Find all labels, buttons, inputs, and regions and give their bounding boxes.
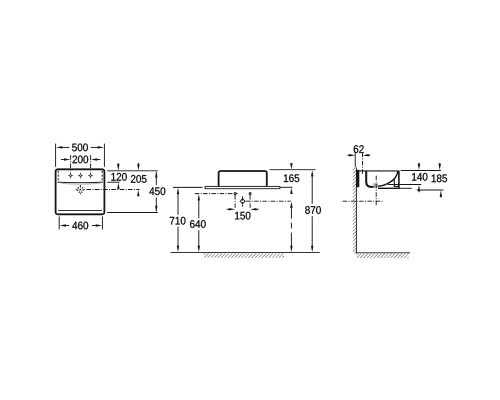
- dim 150: [227, 208, 259, 211]
- fixing holes centerline: [195, 193, 238, 195]
- basin inner bowl U: [366, 171, 375, 187]
- top ext line (right of plan): [107, 170, 158, 172]
- outlet diamond: [240, 199, 245, 204]
- basin front rect: [219, 171, 267, 187]
- label 185: [432, 174, 447, 182]
- basin outer rect (plan): [56, 169, 105, 214]
- dim 140: [388, 163, 421, 193]
- inner bottom edge: [58, 209, 102, 211]
- dim 450: [107, 171, 158, 212]
- broken dim line (drain height): [290, 202, 293, 253]
- dim 205: [87, 163, 140, 196]
- basin back wall (solid): [357, 170, 360, 187]
- dim 200: [61, 155, 100, 172]
- drain centerline: [375, 176, 377, 206]
- label 140: [412, 173, 427, 181]
- label 150: [235, 212, 250, 220]
- front wall outer: [398, 171, 400, 189]
- wall face: [355, 167, 357, 253]
- floor line (right): [356, 252, 410, 254]
- inner edge shading: [61, 183, 100, 184]
- outlet centerline (side): [343, 200, 383, 202]
- floor hatch (middle): [204, 253, 285, 257]
- dim 500: [56, 144, 105, 167]
- dim 640: [198, 194, 201, 252]
- label 710: [170, 217, 186, 225]
- dim 870: [311, 170, 314, 252]
- top ext line 165/870: [270, 169, 316, 171]
- label 120: [111, 173, 126, 181]
- drain block: [373, 183, 378, 187]
- countertop slab: [205, 186, 280, 188]
- tap hole R: [88, 173, 93, 179]
- dim 165: [280, 163, 292, 194]
- hidden edge dashed left: [57, 171, 59, 182]
- bottom ext thin: [400, 187, 412, 189]
- label 62: [354, 145, 364, 153]
- floor hatch (right): [356, 254, 408, 258]
- label 500: [72, 144, 88, 152]
- label 450: [149, 187, 165, 195]
- front wall inner edge: [394, 179, 399, 187]
- label 460: [72, 222, 88, 230]
- basin section: rim top line: [357, 170, 399, 172]
- label 165: [284, 174, 299, 182]
- top ext line 140/185: [401, 170, 441, 172]
- fixing hole drop lines: [234, 195, 236, 209]
- drain (plan): [76, 185, 85, 194]
- outlet centerline horizontal: [246, 200, 291, 202]
- label 205: [131, 175, 147, 183]
- hidden edge dashed right: [101, 171, 103, 182]
- dim 120: [107, 163, 119, 189]
- fixing hole R: [249, 193, 251, 195]
- tap hole L: [68, 173, 73, 179]
- label 200: [73, 156, 89, 164]
- label 870: [305, 206, 321, 214]
- dim 710: [173, 187, 203, 252]
- basin outer bottom: [378, 187, 400, 189]
- wall hatch: [353, 167, 357, 253]
- dim 185: [417, 163, 444, 198]
- dim 460: [59, 216, 102, 229]
- tap hole C: [78, 173, 83, 179]
- fixing hole L: [234, 193, 236, 195]
- outlet centerline vertical: [242, 196, 244, 206]
- floor line (middle): [171, 251, 320, 253]
- label 640: [190, 220, 206, 228]
- dim 62: [347, 151, 370, 174]
- inner basin back edge: [58, 181, 103, 184]
- dimension labels (as paths): [72, 144, 447, 230]
- inner sweep curve: [378, 172, 398, 187]
